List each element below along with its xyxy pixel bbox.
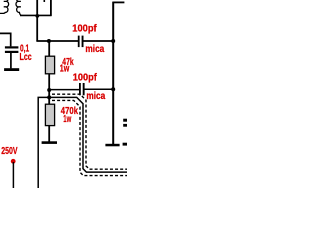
wire top right horizontal	[113, 1, 125, 3]
wire node D to C2	[49, 89, 79, 91]
capacitor C2 100pf plates	[79, 83, 81, 95]
svg-text:mica: mica	[86, 91, 105, 102]
wire horizontal bus to C1	[36, 40, 78, 42]
junction node C	[111, 39, 115, 43]
junction node E	[47, 95, 51, 99]
wire shielded cable center conductor	[38, 97, 127, 188]
capacitor C1 100pf plates	[78, 36, 80, 48]
junction node F	[111, 87, 115, 91]
junction node D	[47, 88, 51, 92]
transformer T1 right winding	[16, 0, 22, 15]
ground bar under R2	[42, 141, 57, 144]
capacitor C3 bottom lead	[10, 53, 12, 68]
wire from C1 to right rail	[83, 40, 113, 42]
junction node B	[47, 39, 51, 43]
ground bar under C3	[4, 68, 19, 71]
wire from winding to node	[20, 14, 52, 16]
resistor R1 top lead	[48, 41, 50, 57]
svg-text:mica: mica	[85, 44, 104, 55]
node 250V red terminal	[11, 159, 16, 164]
capacitor C3 top lead from left edge	[0, 33, 11, 46]
ground bar at right edge	[123, 143, 127, 146]
wire tick at top edge	[43, 0, 45, 2]
wire vertical stub to top edge	[50, 0, 52, 16]
wire R2 bottom lead	[48, 126, 50, 142]
svg-text:100pf: 100pf	[73, 73, 98, 84]
svg-text:1w: 1w	[60, 63, 70, 74]
ground bar under right rail	[105, 144, 119, 147]
svg-text:Lcc: Lcc	[20, 52, 33, 63]
svg-text:250V: 250V	[1, 146, 18, 157]
wire C2 to right rail	[84, 88, 113, 90]
cable shield dashed inner	[52, 94, 127, 169]
wire right rail vertical	[112, 2, 114, 144]
resistor R2 470k body	[45, 104, 54, 125]
wire vertical from top to corner	[36, 0, 38, 41]
svg-text:1w: 1w	[63, 114, 71, 125]
transformer T1 left winding	[0, 0, 9, 13]
wire from 250V terminal down	[12, 162, 14, 188]
junction node A	[35, 14, 39, 18]
resistor R1 47k body	[45, 56, 54, 74]
cable shield dashed outer	[52, 100, 127, 175]
svg-text:100pf: 100pf	[72, 24, 97, 35]
capacitor C3 0,1 Lcc plates	[5, 46, 19, 48]
capacitor C4 plates at right edge	[123, 119, 127, 122]
wire R1 bottom lead to R2	[48, 74, 50, 105]
